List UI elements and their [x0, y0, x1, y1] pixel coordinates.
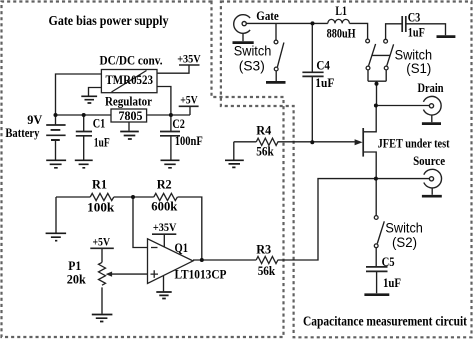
svg-text:Q1: Q1: [175, 240, 189, 255]
svg-text:(S1): (S1): [406, 61, 431, 76]
svg-text:+5V: +5V: [180, 93, 198, 107]
svg-text:C5: C5: [382, 254, 395, 269]
svg-text:C1: C1: [93, 116, 106, 131]
svg-text:1uF: 1uF: [94, 134, 110, 149]
svg-text:1uF: 1uF: [315, 75, 334, 90]
svg-text:Gate bias power supply: Gate bias power supply: [49, 13, 169, 28]
svg-text:+5V: +5V: [93, 234, 111, 248]
svg-text:C2: C2: [172, 116, 185, 131]
svg-text:+35V: +35V: [153, 220, 177, 234]
svg-text:Source: Source: [413, 153, 445, 168]
svg-text:R2: R2: [157, 177, 172, 192]
svg-text:Battery: Battery: [5, 125, 39, 140]
svg-text:Regulator: Regulator: [105, 94, 152, 109]
svg-text:100k: 100k: [87, 200, 115, 215]
svg-text:880uH: 880uH: [327, 26, 356, 41]
svg-text:7805: 7805: [119, 108, 143, 123]
svg-text:LT1013CP: LT1013CP: [175, 267, 227, 282]
svg-text:DC/DC conv.: DC/DC conv.: [100, 53, 163, 68]
svg-text:JFET under test: JFET under test: [378, 136, 451, 151]
svg-text:R3: R3: [256, 242, 271, 257]
svg-text:20k: 20k: [67, 272, 87, 287]
svg-text:(S2): (S2): [392, 235, 417, 250]
svg-text:1uF: 1uF: [383, 275, 401, 290]
svg-text:C3: C3: [408, 10, 421, 25]
svg-text:L1: L1: [335, 3, 347, 18]
svg-text:Switch: Switch: [234, 44, 271, 59]
svg-text:C4: C4: [316, 57, 330, 72]
svg-text:1uF: 1uF: [408, 25, 425, 40]
svg-text:Drain: Drain: [418, 80, 445, 95]
svg-text:R1: R1: [92, 177, 107, 192]
svg-text:+35V: +35V: [177, 51, 201, 65]
svg-text:TMR0523: TMR0523: [106, 72, 154, 87]
svg-text:(S3): (S3): [239, 59, 265, 74]
svg-text:56k: 56k: [258, 263, 276, 278]
svg-text:Capacitance measurement circui: Capacitance measurement circuit: [303, 314, 467, 329]
svg-text:100nF: 100nF: [175, 133, 203, 148]
svg-text:Switch: Switch: [385, 221, 423, 236]
svg-text:R4: R4: [256, 123, 271, 138]
svg-text:600k: 600k: [151, 199, 178, 214]
svg-text:56k: 56k: [256, 144, 274, 159]
svg-text:Gate: Gate: [256, 8, 279, 23]
